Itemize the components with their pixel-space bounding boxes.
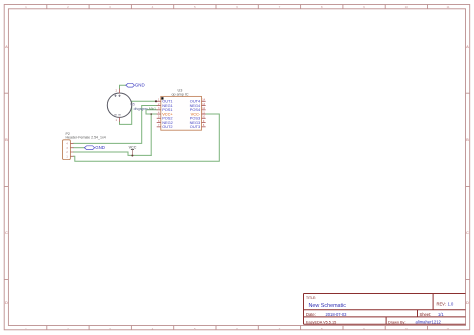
right pin names: [190, 99, 201, 130]
wire: header pin1 down to bottom bus: [73, 114, 219, 161]
svg-text:Header-Female 2.54_1x4: Header-Female 2.54_1x4: [66, 136, 106, 140]
mic top pin stub: [119, 89, 121, 94]
Drawn By cell divider: [385, 317, 387, 324]
svg-text:VCC: VCC: [129, 146, 137, 150]
svg-text:GND: GND: [135, 83, 145, 88]
left pin numbers 1-7: [158, 99, 160, 128]
wire: NEG1 to header pin4: [73, 106, 156, 144]
frame column numbers bottom: [25, 327, 450, 331]
left border ticks: [4, 93, 8, 279]
title block row line 2: [304, 316, 466, 318]
mic body circle: [107, 93, 131, 117]
svg-text:C: C: [5, 230, 8, 235]
svg-text:A: A: [466, 44, 469, 49]
op-amp U3 body: [161, 96, 202, 130]
REV cell divider: [432, 294, 434, 310]
title block outline: [304, 294, 466, 325]
wire: mic bottom pin loop to IC OUT1: [120, 101, 157, 124]
svg-text:Date:: Date:: [306, 312, 316, 317]
mic bottom pin stub: [119, 117, 121, 121]
svg-text:REV:: REV:: [437, 301, 446, 306]
right border ticks: [466, 93, 470, 279]
bottom border ticks: [47, 326, 428, 330]
svg-text:A: A: [5, 44, 8, 49]
svg-text:GND: GND: [95, 145, 105, 150]
frame row letters left: [5, 44, 8, 305]
svg-text:Sheet:: Sheet:: [420, 312, 432, 317]
svg-text:New Schematic: New Schematic: [309, 303, 347, 309]
mic pin - marks: [114, 114, 120, 116]
svg-text:10: 10: [405, 5, 409, 9]
svg-text:B: B: [5, 137, 8, 142]
title block row line 1: [304, 309, 466, 311]
header pin numbers 4,3,2,1: [66, 142, 68, 158]
svg-text:B: B: [466, 137, 469, 142]
junction dot at OUT1 wire: [155, 100, 157, 102]
svg-text:OUT3: OUT3: [190, 124, 200, 129]
svg-text:Drawn By:: Drawn By:: [388, 320, 406, 324]
svg-text:op amp IC: op amp IC: [172, 92, 189, 96]
Sheet cell divider: [417, 310, 419, 317]
wire: mic top pin to GND flag: [120, 85, 126, 88]
svg-text:11: 11: [446, 5, 449, 9]
top border ticks: [47, 5, 428, 9]
svg-text:D: D: [466, 300, 469, 305]
svg-text:C: C: [466, 230, 469, 235]
right pin stubs: [202, 101, 206, 127]
cursor dot near IC corner: [161, 97, 163, 99]
svg-text:10: 10: [405, 327, 409, 331]
frame row letters right: [466, 44, 469, 305]
svg-text:EasyEDA V5.5.15: EasyEDA V5.5.15: [306, 320, 336, 324]
right pin numbers 14-8: [202, 99, 205, 128]
mic pin + marks: [114, 95, 120, 97]
svg-text:2018-07-03: 2018-07-03: [326, 312, 348, 317]
wire: POS1 strap to VCC+: [146, 110, 157, 114]
left pin stubs: [157, 101, 161, 127]
wire: VCC net vertical from VCC+ wire down: [150, 114, 152, 155]
frame column numbers top: [25, 5, 450, 9]
header P2 body: [63, 140, 71, 160]
svg-text:1.0: 1.0: [448, 301, 454, 306]
header pin stubs: [70, 143, 73, 156]
junction dot at VCC stub: [131, 155, 133, 157]
junction dot POS1/VCC strap: [150, 113, 152, 115]
svg-text:1/1: 1/1: [438, 312, 444, 317]
wire: VCC horizontal to header pin2: [73, 152, 151, 155]
svg-text:dfsgsgres-Mic1: dfsgsgres-Mic1: [134, 107, 157, 111]
GND net flag (top, at mic): [126, 83, 145, 88]
wire: header pin3 to GND flag: [73, 147, 84, 149]
left pin names: [162, 99, 173, 130]
svg-text:TITLE:: TITLE:: [306, 296, 316, 300]
svg-text:11: 11: [446, 327, 449, 331]
VCC net flag: [129, 146, 137, 156]
GND net flag (at header pin3): [84, 145, 105, 150]
svg-text:D: D: [5, 300, 8, 305]
svg-text:alimaher1212: alimaher1212: [416, 320, 442, 325]
svg-text:OUT2: OUT2: [162, 124, 172, 129]
